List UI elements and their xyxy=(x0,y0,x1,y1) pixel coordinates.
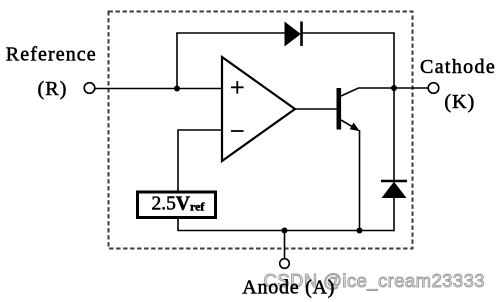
zener D2 cathode bar xyxy=(381,180,407,183)
op-amp U1 xyxy=(222,57,295,161)
wire minus input xyxy=(178,130,222,192)
terminal R xyxy=(84,83,95,94)
node cathode junction xyxy=(391,85,397,91)
transistor Q1 emitter arrowhead xyxy=(350,123,360,132)
op-amp minus sign xyxy=(231,130,244,132)
wire zener to anode rail xyxy=(393,197,395,231)
wire anode drop xyxy=(284,231,286,259)
svg-text:Cathode: Cathode xyxy=(420,56,496,78)
diode D1 anode triangle xyxy=(285,23,300,46)
wire cathode out xyxy=(394,87,428,89)
wire R input xyxy=(95,88,222,90)
wire top to diode xyxy=(176,32,286,34)
wire op-amp output to base xyxy=(294,108,337,110)
wire feedback up xyxy=(176,33,178,89)
node R junction xyxy=(174,86,180,92)
wire diode to right xyxy=(302,32,395,34)
op-amp plus sign xyxy=(231,81,244,94)
diode D1 cathode bar xyxy=(300,22,303,47)
wire cathode node to zener xyxy=(393,88,395,181)
svg-text:(R): (R) xyxy=(38,78,68,100)
wire emitter down xyxy=(359,130,361,231)
svg-text:Anode (A): Anode (A) xyxy=(242,276,335,298)
node emitter-anode junction xyxy=(357,228,363,234)
terminal K xyxy=(428,83,439,94)
dashed package outline xyxy=(109,12,413,249)
transistor Q1 base bar xyxy=(337,88,342,130)
transistor Q1 collector xyxy=(341,88,394,96)
svg-text:(K): (K) xyxy=(444,91,475,113)
node anode junction xyxy=(282,228,288,234)
reference box 2.5Vref xyxy=(138,192,216,218)
terminal A xyxy=(280,259,290,269)
transistor Q1 emitter xyxy=(341,120,357,130)
zener D2 triangle xyxy=(383,183,406,198)
svg-text:Reference: Reference xyxy=(6,44,97,66)
wire vref to anode rail xyxy=(178,218,394,231)
wire right drop to cathode node xyxy=(393,33,395,88)
